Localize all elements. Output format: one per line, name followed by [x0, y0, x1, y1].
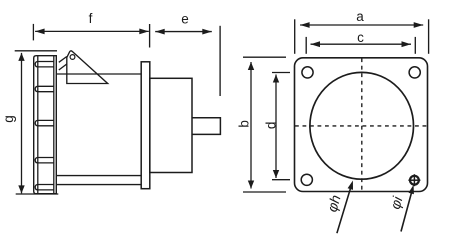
dimension a right tick	[428, 19, 430, 54]
dimension d line	[273, 75, 279, 179]
cap rib 5	[35, 185, 54, 190]
dimension b top extension line	[243, 56, 286, 58]
cap inner left line	[37, 56, 39, 194]
svg-text:φi: φi	[387, 194, 406, 211]
dimension g top extension line	[15, 50, 57, 52]
dimension e right extension line	[219, 26, 221, 96]
mounting hole bottom-left	[301, 174, 312, 185]
mounting hole top-right	[409, 67, 420, 78]
dimension f / e shared tick	[149, 24, 151, 48]
dimension a left tick	[294, 19, 296, 54]
mounting hole top-left	[302, 67, 313, 78]
cap rib 4	[35, 158, 54, 163]
horizontal centerline	[295, 125, 427, 127]
dimension b bottom extension line	[243, 191, 286, 193]
svg-text:b: b	[237, 120, 252, 128]
vertical centerline	[361, 58, 363, 191]
cap rib 1	[35, 62, 54, 67]
dimension a line	[300, 22, 423, 28]
svg-text:g: g	[1, 115, 16, 123]
body tube bottom line 2	[56, 184, 141, 186]
svg-text:a: a	[356, 9, 364, 24]
front view flange plate	[295, 58, 428, 192]
phi-i leader arrow	[401, 185, 414, 232]
dimension b line	[248, 62, 254, 189]
side view cap outline	[34, 56, 57, 194]
svg-text:f: f	[89, 11, 93, 26]
phi-h leader arrow	[337, 181, 353, 234]
cap rib 3	[35, 120, 54, 125]
side view mounting flange	[141, 62, 150, 189]
dimension c left tick	[305, 37, 307, 54]
side view body block	[150, 78, 192, 172]
dimension f line	[35, 29, 149, 35]
body tube top line	[56, 73, 141, 75]
svg-text:e: e	[181, 12, 189, 27]
latch pivot hole	[70, 55, 75, 60]
mounting hole bottom-right crosshair	[408, 174, 420, 186]
front view socket circle	[310, 72, 414, 179]
latch lever triangle	[67, 51, 108, 84]
dimension d bottom extension line	[272, 179, 290, 181]
dimension g bottom extension line	[16, 193, 59, 195]
dimension c line	[311, 41, 412, 47]
cap rib 2	[35, 86, 54, 91]
dimension f left tick	[32, 24, 34, 41]
dimension g line	[18, 53, 24, 194]
svg-text:d: d	[264, 122, 279, 130]
dimension d top extension line	[272, 72, 290, 74]
svg-text:φh: φh	[324, 193, 344, 214]
dimension c right tick	[414, 37, 416, 54]
cap inner right line	[53, 56, 55, 194]
latch spring lower link	[59, 64, 67, 70]
dimension e line	[155, 29, 212, 35]
body tube bottom line 1	[56, 175, 141, 177]
side view rear spigot	[192, 118, 220, 135]
latch spring upper link	[59, 57, 67, 63]
svg-text:c: c	[357, 30, 364, 45]
